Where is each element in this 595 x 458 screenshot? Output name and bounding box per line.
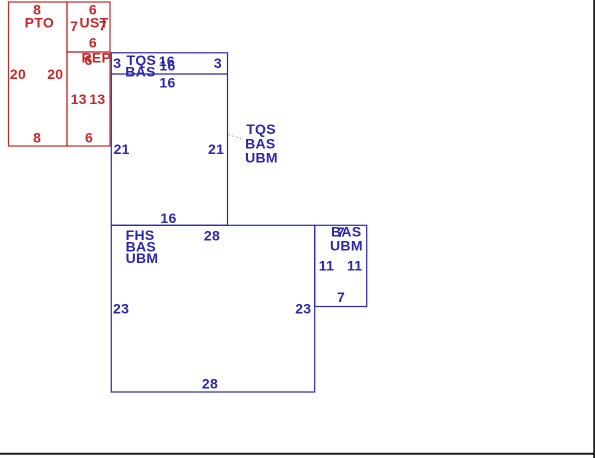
- svg-text:UBM: UBM: [245, 150, 278, 166]
- area UST outline: [67, 2, 110, 52]
- area PTO outline: [9, 2, 68, 146]
- svg-text:13: 13: [71, 91, 87, 107]
- svg-text:7: 7: [70, 18, 78, 34]
- area REP outline: [67, 52, 110, 146]
- svg-text:16: 16: [159, 58, 175, 74]
- svg-text:6: 6: [85, 130, 93, 146]
- svg-text:16: 16: [159, 75, 175, 91]
- svg-text:UBM: UBM: [126, 250, 159, 266]
- wire divider line strip bottom: [111, 73, 227, 75]
- svg-text:28: 28: [204, 228, 220, 244]
- wire callout leader dotted: [229, 135, 244, 141]
- frame right border: [593, 0, 595, 458]
- svg-text:3: 3: [113, 55, 121, 71]
- svg-text:21: 21: [114, 141, 130, 157]
- svg-text:PTO: PTO: [25, 15, 54, 31]
- svg-text:UBM: UBM: [330, 238, 363, 254]
- svg-text:6: 6: [89, 35, 97, 51]
- svg-text:20: 20: [10, 66, 26, 82]
- svg-text:11: 11: [347, 258, 362, 274]
- svg-text:20: 20: [47, 66, 63, 82]
- area BAS/UBM outline: [315, 225, 367, 306]
- area TQS/BAS strip + TQS/BAS/UBM outline: [111, 53, 227, 226]
- svg-text:23: 23: [295, 301, 311, 317]
- svg-text:3: 3: [214, 55, 222, 71]
- svg-text:23: 23: [113, 301, 129, 317]
- svg-text:11: 11: [319, 258, 334, 274]
- svg-text:6: 6: [85, 52, 93, 68]
- svg-text:8: 8: [33, 130, 41, 146]
- svg-text:13: 13: [89, 91, 105, 107]
- svg-text:BAS: BAS: [125, 64, 155, 80]
- svg-text:21: 21: [208, 141, 224, 157]
- svg-text:7: 7: [99, 18, 107, 34]
- svg-text:16: 16: [160, 210, 176, 226]
- svg-text:28: 28: [202, 376, 218, 392]
- area FHS/BAS/UBM outline: [111, 225, 314, 392]
- frame bottom border: [0, 453, 595, 455]
- svg-text:7: 7: [337, 289, 345, 305]
